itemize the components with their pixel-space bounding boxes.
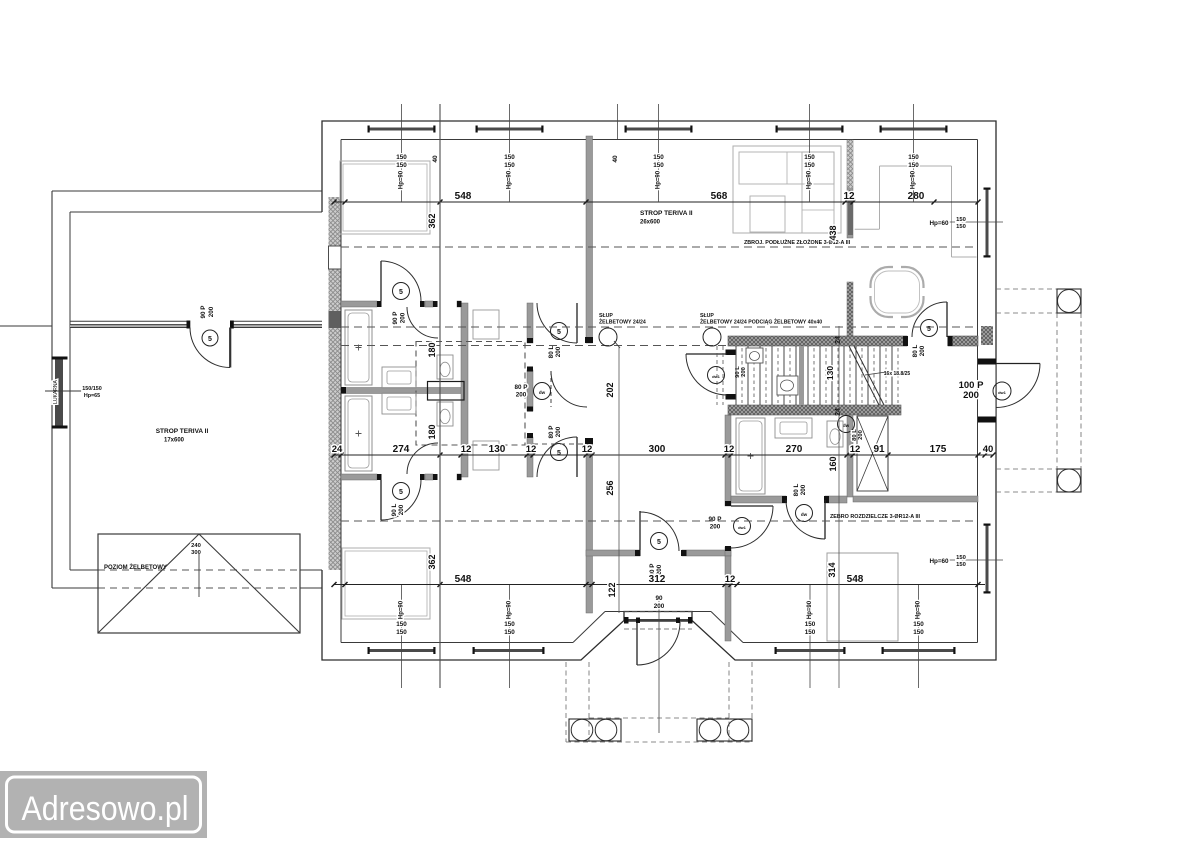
svg-text:80 L: 80 L xyxy=(912,345,919,358)
svg-text:Hp=90: Hp=90 xyxy=(911,170,917,189)
svg-text:150: 150 xyxy=(913,629,924,636)
svg-text:ZEBRO ROZDZIELCZE 3-ØR12-A III: ZEBRO ROZDZIELCZE 3-ØR12-A III xyxy=(830,514,920,520)
svg-text:5: 5 xyxy=(557,329,561,336)
svg-text:dw: dw xyxy=(801,512,808,517)
svg-text:240: 240 xyxy=(191,543,201,549)
svg-text:280: 280 xyxy=(908,191,925,202)
svg-text:90: 90 xyxy=(655,595,663,602)
svg-text:200: 200 xyxy=(400,312,407,323)
svg-text:12: 12 xyxy=(850,444,861,455)
svg-text:150: 150 xyxy=(653,154,664,161)
svg-text:312: 312 xyxy=(649,574,666,585)
svg-text:dw: dw xyxy=(843,423,850,428)
svg-text:314: 314 xyxy=(827,562,837,577)
svg-text:568: 568 xyxy=(711,191,728,202)
svg-text:150: 150 xyxy=(956,562,966,568)
svg-text:548: 548 xyxy=(455,574,472,585)
svg-text:Hp=90: Hp=90 xyxy=(399,600,405,619)
svg-text:40: 40 xyxy=(983,444,994,455)
svg-text:SŁUP: SŁUP xyxy=(700,313,714,319)
svg-text:5: 5 xyxy=(657,539,661,546)
svg-text:130: 130 xyxy=(489,444,506,455)
svg-text:80 L: 80 L xyxy=(793,484,800,497)
svg-text:5: 5 xyxy=(557,450,561,457)
svg-text:150: 150 xyxy=(805,629,816,636)
svg-text:300: 300 xyxy=(649,444,666,455)
svg-text:dw1: dw1 xyxy=(998,390,1007,395)
svg-text:150: 150 xyxy=(956,555,966,561)
svg-text:5: 5 xyxy=(399,489,403,496)
svg-text:STROP TERIVA II: STROP TERIVA II xyxy=(156,428,209,435)
svg-text:274: 274 xyxy=(393,444,410,455)
svg-text:150: 150 xyxy=(653,162,664,169)
svg-text:17x600: 17x600 xyxy=(164,438,185,444)
svg-text:122: 122 xyxy=(607,582,617,597)
svg-text:175: 175 xyxy=(930,444,947,455)
svg-text:Adresowo.pl: Adresowo.pl xyxy=(22,790,189,828)
svg-text:91: 91 xyxy=(873,444,885,455)
svg-text:200: 200 xyxy=(654,603,665,610)
svg-text:SŁUP: SŁUP xyxy=(599,313,613,319)
svg-text:150: 150 xyxy=(504,621,515,628)
svg-text:ŻELBETOWY 24/24: ŻELBETOWY 24/24 xyxy=(599,319,646,326)
svg-text:150: 150 xyxy=(956,224,966,230)
svg-text:150: 150 xyxy=(396,621,407,628)
svg-text:90 P: 90 P xyxy=(392,312,399,325)
svg-text:200: 200 xyxy=(919,345,926,356)
svg-text:POZIOM ŻELBETOWY: POZIOM ŻELBETOWY xyxy=(104,564,167,571)
svg-text:40: 40 xyxy=(432,155,439,163)
svg-text:12: 12 xyxy=(526,444,537,455)
svg-text:200: 200 xyxy=(516,392,527,399)
svg-text:90 P: 90 P xyxy=(200,306,207,319)
svg-text:Hp=60: Hp=60 xyxy=(929,558,949,565)
svg-text:24: 24 xyxy=(835,408,842,416)
svg-text:150: 150 xyxy=(956,217,966,223)
svg-text:26x600: 26x600 xyxy=(640,220,661,226)
svg-text:200: 200 xyxy=(710,524,721,531)
svg-text:150: 150 xyxy=(805,621,816,628)
svg-text:Hp=90: Hp=90 xyxy=(399,170,405,189)
svg-text:Hp=90: Hp=90 xyxy=(807,600,813,619)
svg-text:Hp=90: Hp=90 xyxy=(807,170,813,189)
svg-text:150: 150 xyxy=(804,154,815,161)
svg-text:dw1: dw1 xyxy=(738,525,747,530)
svg-text:24: 24 xyxy=(332,444,343,455)
svg-text:548: 548 xyxy=(847,574,864,585)
svg-text:ŻELBETOWY 24/24 PODCIĄG ŻELB: ŻELBETOWY 24/24 PODCIĄG ŻELBETOWY 40x40 xyxy=(700,319,822,326)
svg-text:5: 5 xyxy=(208,336,212,343)
svg-text:150: 150 xyxy=(504,154,515,161)
svg-text:LUKARNA: LUKARNA xyxy=(53,380,59,404)
svg-text:438: 438 xyxy=(828,225,838,240)
svg-text:80 L: 80 L xyxy=(548,346,555,359)
svg-text:150: 150 xyxy=(396,162,407,169)
svg-text:dw1: dw1 xyxy=(712,374,721,379)
svg-text:150/150: 150/150 xyxy=(82,386,102,392)
svg-text:12: 12 xyxy=(724,444,735,455)
svg-text:362: 362 xyxy=(427,554,437,569)
svg-text:80 P: 80 P xyxy=(548,426,555,439)
svg-text:202: 202 xyxy=(605,382,615,397)
svg-text:150: 150 xyxy=(913,621,924,628)
svg-text:90 P: 90 P xyxy=(709,516,722,523)
svg-text:40: 40 xyxy=(612,155,619,163)
svg-text:256: 256 xyxy=(605,480,615,495)
svg-text:200: 200 xyxy=(398,504,405,515)
svg-text:160: 160 xyxy=(828,456,838,471)
svg-text:Hp=90: Hp=90 xyxy=(916,600,922,619)
svg-text:200: 200 xyxy=(963,390,979,401)
svg-text:80 P: 80 P xyxy=(515,384,528,391)
svg-text:Hp=65: Hp=65 xyxy=(84,393,100,399)
svg-text:180: 180 xyxy=(427,342,437,357)
svg-text:362: 362 xyxy=(427,213,437,228)
svg-text:548: 548 xyxy=(455,191,472,202)
svg-text:200: 200 xyxy=(555,346,562,357)
svg-text:130: 130 xyxy=(825,366,835,380)
svg-text:5: 5 xyxy=(399,289,403,296)
svg-text:180: 180 xyxy=(427,424,437,439)
svg-text:200: 200 xyxy=(208,306,215,317)
svg-text:12: 12 xyxy=(725,574,736,585)
svg-text:200: 200 xyxy=(800,484,807,495)
svg-text:150: 150 xyxy=(396,629,407,636)
svg-text:16x 18.8/25: 16x 18.8/25 xyxy=(884,371,911,377)
svg-text:dw: dw xyxy=(539,390,546,395)
svg-text:150: 150 xyxy=(908,154,919,161)
svg-text:Hp=90: Hp=90 xyxy=(507,170,513,189)
svg-text:150: 150 xyxy=(908,162,919,169)
svg-text:12: 12 xyxy=(843,191,855,202)
svg-text:12: 12 xyxy=(582,444,593,455)
svg-text:150: 150 xyxy=(396,154,407,161)
svg-text:Hp=90: Hp=90 xyxy=(507,600,513,619)
svg-text:90 L: 90 L xyxy=(391,504,398,517)
svg-text:270: 270 xyxy=(786,444,803,455)
svg-text:200: 200 xyxy=(555,426,562,437)
svg-text:12: 12 xyxy=(461,444,472,455)
svg-text:150: 150 xyxy=(804,162,815,169)
svg-text:24: 24 xyxy=(835,336,842,344)
svg-text:150: 150 xyxy=(504,629,515,636)
svg-text:STROP TERIVA II: STROP TERIVA II xyxy=(640,210,693,217)
svg-text:150: 150 xyxy=(504,162,515,169)
svg-text:Hp=90: Hp=90 xyxy=(656,170,662,189)
svg-text:Hp=60: Hp=60 xyxy=(929,220,949,227)
